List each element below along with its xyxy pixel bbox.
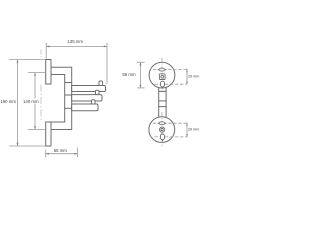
svg-text:29 mm: 29 mm (188, 75, 199, 79)
svg-text:140 mm: 140 mm (23, 99, 39, 104)
svg-text:65 mm: 65 mm (54, 148, 68, 153)
svg-text:190 mm: 190 mm (0, 99, 16, 104)
svg-text:135 mm: 135 mm (67, 39, 83, 44)
svg-text:55 mm: 55 mm (122, 72, 136, 77)
svg-text:29 mm: 29 mm (188, 127, 199, 131)
